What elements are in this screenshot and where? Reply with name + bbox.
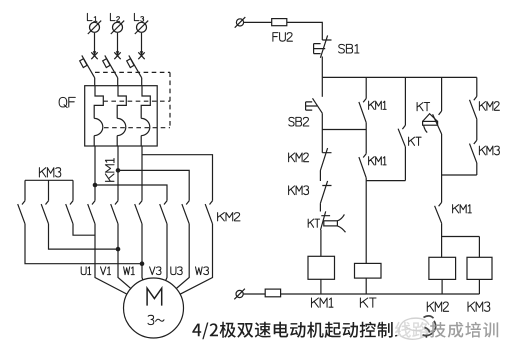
node labels U1 V1 W1 V3 U3 W3	[81, 267, 208, 275]
wire FU2 to SB1	[287, 22, 323, 40]
coil KM3	[467, 257, 492, 311]
wire top bus	[322, 76, 477, 78]
contact KT NO instantaneous	[398, 125, 421, 147]
wire SB2 to self-hold node	[321, 113, 323, 129]
fuse bottom	[243, 289, 280, 297]
wire KM2 NC to KM3 NC	[319, 171, 321, 182]
wire V3 motor lead	[166, 224, 167, 281]
wire U1 motor lead	[95, 224, 127, 294]
wire bus to KM2 aux	[476, 77, 478, 96]
wire terminal to FU2	[244, 21, 272, 23]
wire W3 motor lead	[180, 224, 212, 294]
wire L1 to QF contact	[93, 33, 96, 56]
wire W1 motor lead	[141, 224, 144, 280]
wire bottom bus	[281, 293, 480, 295]
wire V1 motor lead	[118, 224, 131, 289]
contact KM3 NC interlock	[289, 181, 332, 203]
wire KT delayed to junction with KM2/KM3 branch	[442, 134, 477, 175]
contactor KM1 main contacts	[88, 159, 142, 224]
wire L3 to QF contact	[140, 33, 143, 56]
contact KM1 NO enabling	[435, 202, 472, 223]
pushbutton SB2 (NO start)	[289, 98, 323, 126]
wire bus to KM1 aux1	[365, 77, 367, 98]
wire U3 motor lead	[176, 224, 189, 289]
contact KM3 NO aux	[470, 140, 500, 163]
caption title text	[192, 322, 428, 340]
wire KM1 aux3 to coil split	[442, 223, 480, 257]
terminal L1	[87, 13, 101, 34]
wire KM3 NC to KT contact	[319, 203, 321, 211]
coil KM1	[308, 256, 335, 307]
contact KT NO delayed closing (dashpot)	[417, 103, 442, 135]
terminal L2	[110, 13, 124, 34]
terminal control N	[234, 289, 245, 300]
contact KM2 NC interlock	[289, 148, 332, 170]
watermark text	[430, 322, 498, 338]
terminal L3	[134, 13, 148, 34]
wire KT contact down to junction	[404, 147, 406, 181]
wire KM3 contact2 to node V1	[49, 224, 121, 252]
wire SB1 to top bus	[321, 57, 323, 78]
circuit breaker QF	[59, 52, 170, 146]
wire KM1 aux2 to KT coil (junction with KT contact)	[366, 178, 405, 264]
contact KM1 NO self-hold	[359, 99, 386, 123]
wire KT contact to KM1 coil	[320, 230, 322, 256]
wire bus to KT delayed contact	[441, 77, 443, 111]
contact KM1 NO aux2	[359, 154, 386, 178]
wire KM3 coil to bottom bus	[478, 279, 480, 294]
wire bus to KT contact	[404, 77, 406, 125]
watermark logo	[394, 316, 436, 341]
wire node to KM2 NC	[321, 130, 323, 153]
contact KT NC delayed (with dashpot)	[308, 211, 345, 232]
contact KM2 NO aux	[470, 96, 500, 119]
wire KM2 aux to KM3 aux	[476, 119, 478, 140]
contactor KM2 main contacts	[160, 201, 240, 224]
wire KT coil to bottom bus	[365, 278, 367, 294]
wire KM3 contact3 to node U1	[73, 224, 95, 235]
wire bus to SB2	[321, 77, 323, 96]
contactor KM3 star contacts with shorting bar	[18, 168, 73, 224]
wire KM2 coil to bottom bus	[441, 279, 443, 294]
wire QF pole2 to KM1 contact 2 (with junction to KM2 feed)	[116, 146, 190, 201]
wire junction to KM1 aux3	[441, 175, 443, 202]
wire node to KM1 aux2	[365, 123, 367, 154]
wire QF pole3 to KM1 contact 3 (with junction to KM2 feed)	[142, 146, 213, 201]
wire L2 to QF contact	[116, 33, 119, 56]
coil KT	[355, 263, 382, 307]
wire QF pole1 to KM1 contact 1 (with junction to KM2 feed)	[93, 146, 167, 201]
motor M 3~	[124, 278, 184, 338]
coil KM2	[427, 257, 455, 311]
fuse FU2	[272, 19, 293, 42]
wire KM1 coil to bottom bus	[320, 279, 322, 294]
wire KM3 aux to junction	[476, 163, 478, 175]
wire KM3 contact1 to node W1	[25, 224, 144, 266]
wire self-hold link	[322, 129, 366, 131]
terminal control L	[235, 17, 246, 28]
pushbutton SB1 (NC stop)	[314, 35, 359, 57]
